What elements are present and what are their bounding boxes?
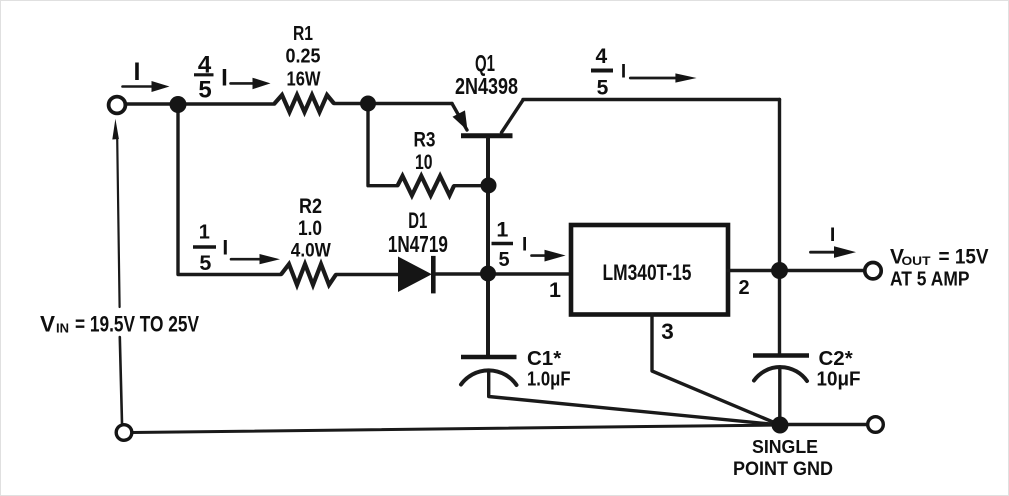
current label I at input [123, 58, 170, 92]
svg-text:10μF: 10μF [817, 368, 861, 391]
svg-text:10: 10 [415, 151, 433, 174]
junction node: R3 to Q1 base [481, 177, 497, 193]
wire: regulator output pin 2 to output terminal [728, 269, 864, 272]
junction node B [360, 96, 376, 112]
svg-text:0.25: 0.25 [286, 45, 321, 68]
capacitor C1 top plate [461, 355, 517, 360]
junction node: D1 cathode / pin1 / C1 [480, 266, 496, 282]
svg-text:1: 1 [549, 278, 561, 302]
wire: R1 to Q1 emitter [334, 102, 452, 105]
wire: vertical from node A down to R2 row [178, 104, 281, 275]
svg-text:5: 5 [597, 77, 609, 100]
svg-text:1.0μF: 1.0μF [527, 368, 571, 391]
resistor R3 [398, 176, 454, 195]
wire: C2 lead to single point ground [778, 369, 781, 425]
svg-text:1.0: 1.0 [298, 217, 322, 240]
svg-text:V: V [40, 312, 55, 337]
label D1 value [388, 208, 448, 257]
label R3 value [414, 129, 436, 175]
capacitor C2 top plate [753, 353, 809, 358]
wire: bottom return from input bottom terminal to ground node [132, 425, 780, 433]
svg-text:I: I [830, 224, 835, 246]
wire: C1 lead to single point ground [489, 371, 780, 425]
svg-text:R1: R1 [293, 22, 313, 45]
svg-text:5: 5 [198, 77, 211, 104]
svg-text:R3: R3 [414, 129, 436, 152]
wire: regulator pin 3 to single point ground [652, 315, 780, 426]
current label 4/5 I top left [194, 52, 271, 104]
capacitor C2 curved plate [754, 367, 807, 381]
current label 1/5 I left [193, 222, 280, 276]
svg-text:5: 5 [199, 251, 211, 275]
svg-text:I: I [134, 58, 141, 86]
svg-text:I: I [621, 61, 626, 82]
svg-text:IN: IN [56, 321, 69, 336]
svg-text:1N4719: 1N4719 [388, 231, 448, 257]
svg-text:5: 5 [498, 249, 509, 271]
wire: R2 to D1 [336, 273, 399, 276]
svg-text:I: I [522, 235, 527, 256]
svg-text:LM340T-15: LM340T-15 [603, 260, 692, 285]
svg-text:= 15V: = 15V [939, 245, 989, 268]
svg-text:SINGLE: SINGLE [752, 436, 818, 457]
current label 4/5 I top right [591, 45, 697, 100]
svg-text:AT 5 AMP: AT 5 AMP [890, 269, 970, 291]
svg-text:D1: D1 [408, 208, 427, 233]
pin 1 label [549, 278, 561, 302]
wire: input top to R1 [126, 102, 275, 105]
svg-text:4: 4 [595, 45, 607, 68]
label R1 value [286, 22, 322, 91]
wire: right vertical to output node and C2 [778, 100, 781, 354]
svg-text:2N4398: 2N4398 [455, 73, 518, 99]
resistor R2 [281, 264, 336, 285]
pin 3 label [661, 319, 674, 344]
transistor Q1 emitter lead with arrow [452, 104, 468, 131]
terminal: output top [865, 263, 881, 279]
transistor Q1 base bar [461, 133, 513, 138]
wire: D1 to regulator input pin 1 [435, 272, 572, 275]
terminal: input bottom [116, 425, 132, 441]
wire: Q1 base vertical down through nodes to C1 [486, 138, 490, 355]
terminal: output bottom [868, 417, 884, 433]
svg-text:1: 1 [199, 222, 210, 244]
svg-text:R2: R2 [299, 195, 322, 218]
junction node: output [771, 262, 788, 279]
wire: ground node to bottom right terminal [788, 423, 867, 426]
svg-text:16W: 16W [287, 68, 322, 91]
current label I at output [811, 224, 857, 258]
capacitor C1 curved plate [461, 370, 517, 385]
label C1 value [527, 347, 571, 391]
svg-text:I: I [221, 65, 228, 92]
junction node A [170, 96, 187, 113]
terminal: input top [109, 97, 126, 114]
svg-text:1: 1 [496, 218, 508, 242]
junction node: single point ground [772, 417, 789, 434]
label VOUT [890, 245, 989, 290]
current label 1/5 I at regulator input [492, 218, 566, 272]
wire: vertical from node B down to R3 [368, 104, 398, 186]
svg-text:I: I [222, 236, 228, 259]
label Q1 [455, 50, 518, 99]
svg-text:2: 2 [738, 277, 749, 299]
svg-text:OUT: OUT [902, 256, 931, 268]
label VIN [40, 312, 199, 337]
svg-text:= 19.5V TO 25V: = 19.5V TO 25V [75, 312, 199, 337]
label R2 value [291, 195, 331, 262]
regulator U1 LM340T-15 box [571, 225, 728, 315]
svg-text:3: 3 [661, 319, 674, 344]
diode D1 [398, 256, 433, 294]
wire: VIN sense line lower segment [120, 337, 122, 423]
wire: R3 to base node [454, 184, 488, 187]
wire: Q1 collector top run [523, 98, 780, 101]
resistor R1 [275, 95, 335, 112]
transistor Q1 collector lead [502, 100, 524, 133]
svg-text:4.0W: 4.0W [291, 241, 331, 262]
svg-text:POINT GND: POINT GND [733, 458, 833, 480]
label C2 value [817, 347, 861, 391]
wire: VIN sense line upper segment with up arrow [112, 119, 119, 307]
pin 2 label [738, 277, 749, 299]
label single point gnd [733, 436, 833, 480]
